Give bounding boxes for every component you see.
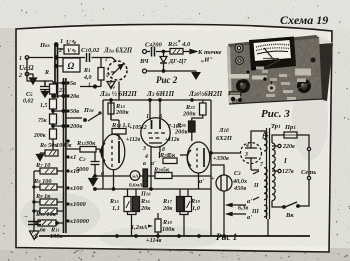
svg-text:Л1а 6Х2П: Л1а 6Х2П (103, 48, 133, 55)
terminal 1 (25, 56, 29, 60)
svg-text:1: 1 (60, 38, 63, 45)
svg-text:R18: R18 (162, 219, 173, 226)
diode ДГ-Ц7 (163, 52, 165, 57)
svg-text:R17: R17 (162, 198, 173, 205)
wire to V box (58, 48, 64, 50)
svg-text:Рис 2: Рис 2 (156, 75, 178, 85)
resistor R9 (40, 199, 57, 205)
terminal probe top (143, 50, 147, 54)
svg-text:1: 1 (88, 82, 91, 88)
wire divider chain (52, 94, 54, 145)
svg-text:2: 2 (104, 57, 108, 63)
svg-text:Рис 1: Рис 1 (216, 232, 237, 242)
svg-text:U∿: U∿ (66, 39, 77, 46)
svg-text:23: 23 (58, 88, 65, 94)
wire Л3 to row (151, 152, 160, 189)
wires multiplier (56, 171, 63, 223)
svg-text:4: 4 (245, 143, 249, 149)
resistor R14 (112, 129, 126, 135)
svg-text:+112в: +112в (165, 137, 180, 143)
svg-text:1,1: 1,1 (112, 205, 120, 212)
svg-text:IV: IV (261, 135, 269, 141)
svg-text:2: 2 (18, 73, 22, 79)
photo: cabinet side face (316, 36, 333, 101)
divider taps (53, 83, 63, 126)
svg-text:+112в: +112в (126, 137, 141, 143)
svg-text:Л2а ½ 6Н2П: Л2а ½ 6Н2П (99, 90, 137, 98)
tube Л1а (dashed) (108, 61, 127, 80)
resistor R20 (dark) (189, 121, 196, 132)
svg-text:а': а' (247, 198, 252, 205)
svg-text:х1000: х1000 (69, 201, 87, 208)
svg-text:R15: R15 (109, 198, 120, 205)
wires resistor row (128, 189, 189, 197)
svg-text:C4200: C4200 (145, 42, 162, 49)
fuse Пр1 (272, 135, 284, 143)
svg-text:20в: 20в (69, 93, 79, 100)
svg-text:200к: 200к (115, 109, 129, 116)
svg-text:100к: 100к (162, 226, 175, 233)
resistor R23 (163, 158, 177, 164)
resistor R25 (170, 49, 183, 55)
resistor R24 (155, 173, 172, 179)
svg-text:3: 3 (244, 152, 248, 158)
svg-text:C10,02: C10,02 (81, 47, 100, 54)
ground C2 (89, 176, 97, 186)
mains right wire (307, 147, 310, 150)
svg-text:1: 1 (19, 56, 22, 62)
svg-text:50в: 50в (70, 108, 79, 115)
svg-text:Пвх: Пвх (39, 42, 50, 49)
svg-text:Сеть: Сеть (301, 169, 316, 176)
photo: cabinet top face (228, 35, 333, 50)
wire mid rail (93, 188, 211, 190)
svg-text:III: III (251, 209, 260, 215)
switch Пвх bar (55, 44, 58, 98)
photo: left big knob (236, 79, 250, 93)
svg-text:а: а (143, 161, 146, 167)
svg-text:Рис. 3: Рис. 3 (261, 108, 290, 120)
svg-text:II: II (253, 183, 259, 189)
tube Л3 (141, 118, 170, 147)
svg-text:П1б: П1б (140, 191, 151, 198)
wire meter stubs (95, 175, 211, 177)
wire transformer centre to bus (267, 219, 269, 236)
svg-text:20к: 20к (140, 205, 151, 212)
svg-text:1000в: 1000в (56, 142, 72, 149)
svg-text:Л1б: Л1б (218, 127, 229, 134)
capacitor C2 (91, 152, 100, 176)
switch П1в contact (66, 114, 99, 121)
photo: meter scale arc (257, 51, 288, 54)
tube Л2б (187, 142, 210, 173)
svg-text:6в: 6в (40, 228, 46, 234)
svg-text:3: 3 (142, 146, 146, 152)
winding III (264, 205, 267, 217)
resistor R16 (dark) (133, 197, 140, 212)
svg-text:П1б: П1б (83, 107, 94, 114)
capacitor C4 (152, 47, 155, 57)
wire Л2б down (198, 173, 200, 189)
svg-text:R235к: R235к (159, 152, 176, 159)
svg-text:С2: С2 (79, 156, 86, 163)
ВЧ probe row (143, 47, 201, 79)
photo: panel streaks (240, 60, 320, 98)
wire to omega box (58, 65, 63, 67)
wire heater (251, 164, 259, 170)
svg-text:75к: 75к (38, 118, 48, 124)
svg-text:R19: R19 (190, 198, 201, 205)
ground bottom-left (hatched) (30, 225, 40, 240)
terminal 2 (25, 72, 29, 76)
resistor R13 (108, 103, 114, 114)
capacitor C3 electrolytic (216, 175, 232, 191)
ground probe (192, 71, 200, 79)
tap 127в (278, 169, 281, 172)
svg-text:C5: C5 (26, 92, 33, 98)
switch contacts (67, 82, 69, 84)
switch Вк (272, 201, 309, 207)
resistor R10 (40, 208, 57, 214)
winding I primary (272, 143, 275, 201)
resistor R5 (50, 129, 57, 139)
photo: right big knob (297, 79, 311, 93)
svg-text:127в: 127в (282, 169, 294, 175)
svg-text:2: 2 (58, 47, 62, 54)
svg-text:R10 10к: R10 10к (35, 211, 57, 218)
tube Л2а (102, 134, 125, 170)
capacitor C6 electrolytic (28, 222, 41, 225)
meter 1mA (130, 171, 140, 181)
resistor R1 (98, 68, 104, 81)
svg-text:1,0: 1,0 (192, 205, 201, 212)
wire B+ (211, 152, 241, 154)
diode arrow inside Л1а (112, 67, 120, 75)
svg-text:200к: 200к (182, 111, 196, 118)
svg-text:Л3 6Н1П: Л3 6Н1П (146, 90, 175, 98)
wire grid Л2а (66, 149, 102, 152)
tap 220в (278, 144, 281, 147)
svg-text:Пр1: Пр1 (284, 124, 296, 131)
resistor R17 (dark) (177, 197, 184, 212)
photo: second left knob (235, 56, 244, 65)
svg-text:4: 4 (144, 154, 148, 160)
photo: bottom-left jacks (231, 97, 235, 101)
capacitor C5 (40, 81, 50, 90)
resistor R8 (40, 184, 57, 190)
resistor R3 (50, 99, 57, 109)
svg-text:Вк: Вк (285, 212, 294, 219)
wire top divider (27, 58, 53, 87)
range switch bar (64, 78, 66, 233)
resistor R12 (80, 147, 96, 153)
ground input (30, 76, 37, 84)
svg-text:200к: 200к (33, 133, 47, 139)
wire tube Л1а anode to rail (118, 82, 120, 101)
photo: meter bottom text smudge (263, 58, 279, 60)
wire input1 (29, 57, 53, 59)
svg-text:−: − (24, 214, 28, 221)
transformer core (267, 128, 270, 219)
ground R6 (37, 153, 44, 161)
svg-text:R7 10: R7 10 (35, 162, 51, 169)
wire amp left rail (102, 100, 104, 189)
svg-text:0,6мА: 0,6мА (129, 183, 143, 189)
svg-text:мА: мА (131, 174, 138, 179)
resistor R2 (50, 84, 57, 94)
junction dots (110, 99, 112, 101)
svg-text:450в: 450в (233, 185, 246, 192)
svg-text:1,2мА: 1,2мА (131, 224, 147, 231)
svg-text:х10: х10 (69, 168, 80, 175)
svg-text:R9 1к: R9 1к (35, 193, 51, 200)
resistor R7 (40, 168, 57, 174)
svg-text:20к: 20к (162, 205, 173, 212)
svg-text:„И": „И" (201, 57, 213, 64)
svg-text:х100: х100 (69, 185, 83, 192)
svg-text:+105х2: +105х2 (129, 125, 147, 131)
photo: label strips (229, 74, 249, 79)
svg-text:R8 100: R8 100 (33, 178, 52, 185)
svg-text:R1: R1 (83, 68, 91, 74)
box omega (63, 58, 80, 72)
svg-text:R14 1,1: R14 1,1 (111, 122, 130, 129)
wire top rail (103, 99, 211, 101)
junction dots (52, 95, 54, 97)
svg-text:ДГ-Ц7: ДГ-Ц7 (168, 59, 187, 65)
winding II (264, 168, 267, 200)
wire rectifier top (251, 131, 266, 140)
svg-text:Схема 19: Схема 19 (280, 13, 328, 27)
svg-text:6Х2П: 6Х2П (216, 135, 233, 142)
wire PSU vertical (210, 100, 212, 236)
photo: top edge shade (228, 35, 319, 47)
photo: cabinet front panel (227, 37, 322, 104)
photo: meter recess (249, 37, 296, 71)
photo: centre small knob (268, 84, 276, 92)
schematic frame border (16, 24, 332, 252)
svg-text:К точке: К точке (197, 49, 222, 56)
wire tube Л2а cathode to bus (113, 170, 115, 189)
tube Л1б (dashed) (241, 143, 262, 164)
svg-text:+330в: +330в (213, 155, 229, 162)
photo: dark label chip (229, 91, 242, 96)
svg-text:С3: С3 (234, 171, 241, 177)
resistor R4 (50, 114, 57, 124)
svg-text:200в: 200в (69, 123, 82, 130)
resistor R22 (200, 103, 207, 115)
terminal probe bottom (143, 69, 147, 73)
svg-text:х1: х1 (69, 154, 76, 161)
svg-text:6,3в: 6,3в (238, 206, 249, 212)
winding IV (264, 133, 267, 151)
photo: upper-left knob (234, 43, 243, 52)
resistor R15 (124, 197, 131, 212)
photo: meter numbers row (256, 44, 289, 47)
svg-text:5: 5 (106, 73, 109, 79)
wire input2 (29, 74, 33, 76)
svg-text:R245к: R245к (153, 167, 170, 174)
wire C1 line (58, 58, 117, 62)
ground under Л1а (107, 80, 115, 89)
svg-text:Ω: Ω (68, 61, 75, 71)
svg-text:V∿: V∿ (67, 49, 77, 55)
svg-text:0,02: 0,02 (23, 99, 34, 105)
svg-text:R: R (44, 70, 49, 76)
capacitor C1 (87, 53, 90, 62)
resistor R19 (185, 197, 192, 212)
svg-text:х10000: х10000 (69, 218, 90, 225)
svg-text:5в: 5в (70, 80, 76, 87)
box V~ (64, 45, 79, 54)
wire probe bottom (147, 70, 197, 72)
svg-text:а': а' (247, 214, 252, 221)
heater 6,3в arrows (232, 171, 259, 214)
arrow to point И (190, 50, 197, 54)
svg-text:Л2б½6Н2П: Л2б½6Н2П (188, 90, 223, 98)
svg-text:а': а' (199, 178, 204, 185)
svg-text:7-105: 7-105 (168, 124, 182, 130)
svg-text:+114в: +114в (146, 237, 162, 244)
resistor R6 (45, 150, 58, 156)
svg-text:+: + (211, 175, 215, 182)
svg-text:220в: 220в (282, 144, 295, 150)
ground C5 (42, 90, 49, 98)
resistor R18 (155, 219, 161, 232)
svg-text:I: I (283, 157, 287, 165)
photo: meter needle (264, 48, 274, 60)
svg-text:ВЧ: ВЧ (139, 58, 149, 65)
svg-text:40,0х: 40,0х (232, 178, 247, 185)
svg-text:1: 1 (146, 113, 149, 120)
switch П1б dark bar (143, 169, 148, 187)
svg-text:Тр1: Тр1 (271, 123, 281, 130)
svg-text:4,0: 4,0 (83, 75, 92, 81)
resistor R11 (38, 220, 56, 226)
svg-text:R16: R16 (140, 198, 151, 205)
photo: meter window (253, 40, 292, 62)
svg-text:1,5: 1,5 (40, 103, 47, 109)
wire probe top (147, 51, 191, 53)
bottom bus (39, 235, 310, 237)
